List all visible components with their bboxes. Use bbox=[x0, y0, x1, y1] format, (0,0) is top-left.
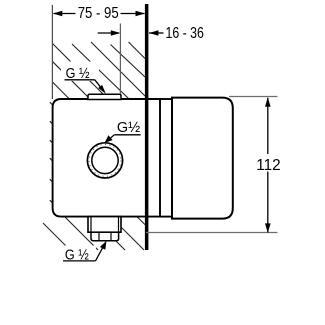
arrow up 112 bbox=[265, 97, 271, 107]
collar inner lines bbox=[90, 217, 92, 233]
dimension line 16-36 left part bbox=[98, 32, 119, 34]
dimension line 16-36 right part bbox=[149, 32, 164, 34]
arrow right 75-95 bbox=[136, 11, 146, 17]
extension line left (75-95) bbox=[51, 5, 53, 99]
leader diagonal bottom bbox=[96, 246, 104, 261]
wall hatching lower band bbox=[43, 217, 145, 250]
label 75-95 bbox=[76, 6, 121, 20]
svg-text:G½: G½ bbox=[117, 120, 140, 136]
extension line 16-36 bbox=[119, 24, 121, 95]
leader underline middle bbox=[114, 134, 140, 136]
arrowhead top-left leader bbox=[98, 85, 106, 94]
extension line 112 bottom bbox=[146, 232, 278, 234]
leader underline top-left bbox=[65, 79, 95, 81]
body neck bottom edge bbox=[160, 216, 172, 218]
valve body (in-wall box) bbox=[53, 99, 160, 217]
arrow left 75-95 bbox=[53, 11, 63, 17]
valve front circle outer ring bbox=[87, 143, 122, 178]
label G1/2 top-left bbox=[61, 62, 99, 82]
leader diagonal middle bbox=[109, 135, 114, 139]
bottom outlet collar bbox=[88, 217, 121, 233]
dimension line 112 bbox=[267, 98, 269, 233]
svg-text:16 - 36: 16 - 36 bbox=[165, 25, 204, 42]
label G1/2 bottom bbox=[58, 246, 96, 264]
wall line bbox=[145, 4, 149, 250]
dimension line 75-95 bbox=[54, 13, 145, 15]
leader underline bottom bbox=[63, 260, 96, 262]
protruding housing (front box) bbox=[172, 98, 233, 219]
extension line 112 top bbox=[229, 96, 278, 98]
arrow down 112 bbox=[265, 223, 271, 233]
body neck top edge bbox=[160, 98, 172, 100]
label 112 bbox=[257, 154, 285, 172]
thread texture ring bbox=[89, 145, 121, 177]
bottom outlet nut bbox=[91, 232, 119, 241]
svg-text:112: 112 bbox=[256, 157, 280, 174]
arrowhead bottom leader bbox=[100, 241, 107, 250]
wall hatching upper band bbox=[52, 42, 145, 99]
leader diagonal top-left bbox=[95, 80, 102, 89]
arrow right-pointing at 16-36 bbox=[111, 30, 121, 36]
arrow left-pointing at wall bbox=[149, 30, 159, 36]
circle inner ring bbox=[92, 147, 118, 173]
top inlet tab G1/2 bbox=[88, 94, 121, 99]
nut facet lines bbox=[98, 232, 100, 240]
svg-text:75 - 95: 75 - 95 bbox=[78, 5, 119, 22]
hatch stubs on body left edge bbox=[50, 102, 55, 205]
arrowhead middle leader bbox=[105, 135, 113, 143]
